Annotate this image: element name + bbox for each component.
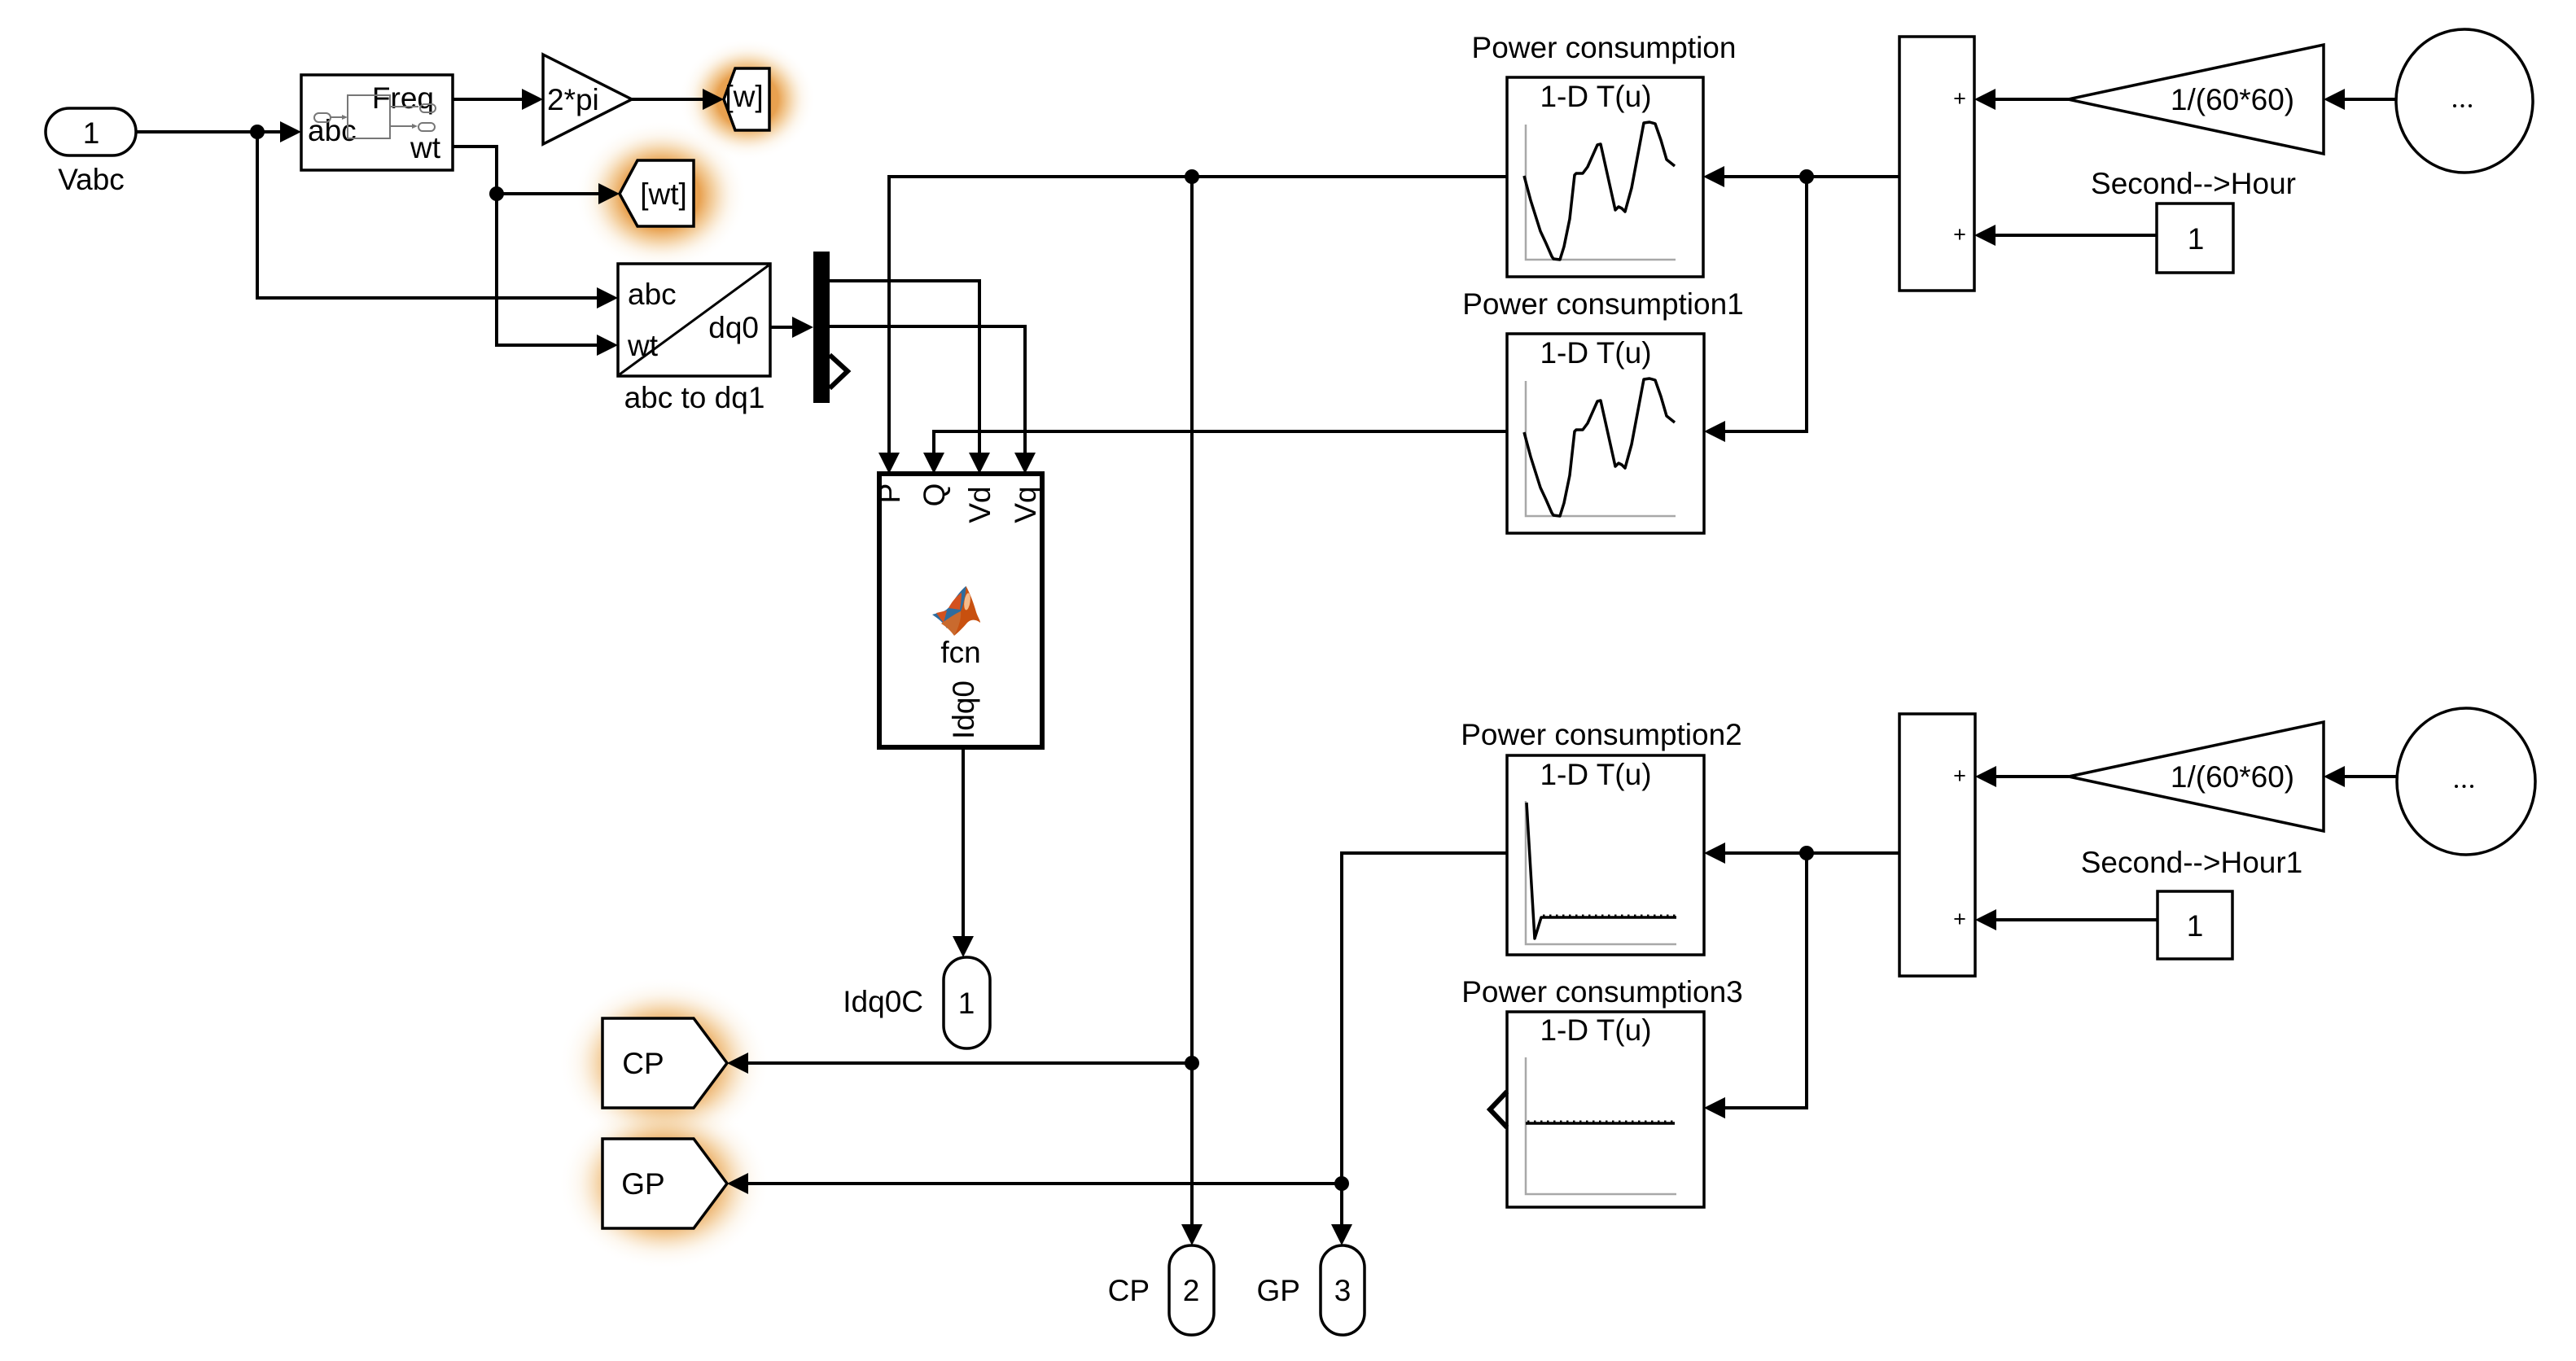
node junction wt — [489, 186, 504, 201]
outport 3 GP — [1257, 1245, 1365, 1335]
wire Vabc branch to abc-to-dq1 abc input — [257, 132, 618, 309]
wire clock1 to gain — [2324, 89, 2396, 110]
svg-text:abc: abc — [628, 278, 677, 311]
wire GP junction down to outport 3 — [1331, 1184, 1352, 1245]
wire gain2 to add2 — [1975, 766, 2069, 787]
svg-text:fcn: fcn — [940, 636, 980, 669]
goto tag [wt] — [620, 160, 694, 226]
goto tag [w] — [724, 68, 769, 130]
node junction CP tag — [1185, 1056, 1199, 1070]
constant 1 (Second-Hour) — [2157, 203, 2233, 273]
svg-text:[w]: [w] — [725, 80, 763, 113]
svg-text:1: 1 — [2188, 222, 2205, 256]
svg-text:Second-->Hour: Second-->Hour — [2091, 167, 2296, 200]
wire table1 output to fcn P — [878, 177, 1507, 474]
wire add1 output to table1 and table2 — [1723, 175, 1899, 178]
glow highlight of goto CP — [559, 977, 770, 1149]
svg-text:Power consumption3: Power consumption3 — [1461, 975, 1743, 1009]
svg-text:1-D T(u): 1-D T(u) — [1540, 1013, 1651, 1047]
wire table2 output to fcn Q — [923, 431, 1507, 474]
svg-text:1/(60*60): 1/(60*60) — [2171, 760, 2294, 794]
svg-text:1-D T(u): 1-D T(u) — [1540, 80, 1651, 113]
svg-text:1-D T(u): 1-D T(u) — [1540, 336, 1651, 370]
node junction add2 out — [1799, 846, 1814, 860]
lookup table Power consumption3 — [1461, 975, 1743, 1207]
svg-text:Power consumption1: Power consumption1 — [1462, 287, 1744, 321]
clock1 — [2396, 29, 2533, 173]
goto tag CP — [602, 1018, 727, 1108]
outport 2 CP — [1108, 1245, 1214, 1335]
inport 1 Vabc — [46, 108, 136, 196]
svg-text:Power consumption2: Power consumption2 — [1461, 718, 1742, 751]
svg-text:Vq: Vq — [1009, 486, 1042, 523]
sum add1 — [1899, 37, 1974, 291]
wire branch down to table2 input — [1704, 177, 1807, 442]
svg-text:+: + — [1953, 86, 1966, 111]
svg-text:Q: Q — [918, 484, 951, 507]
svg-text:Vabc: Vabc — [58, 163, 125, 196]
svg-text:abc to dq1: abc to dq1 — [624, 381, 765, 414]
svg-text:1: 1 — [958, 987, 975, 1020]
goto tag GP — [602, 1139, 727, 1228]
svg-text:Idq0: Idq0 — [947, 680, 980, 739]
svg-text:+: + — [1953, 764, 1966, 788]
MATLAB membrane logo — [932, 586, 980, 636]
wire CP long vertical — [1181, 177, 1203, 1245]
svg-text:Second-->Hour1: Second-->Hour1 — [2081, 846, 2303, 879]
wire GP junction to goto GP — [727, 1173, 1342, 1194]
svg-text:GP: GP — [1257, 1274, 1300, 1307]
wire branch down to table4 input — [1704, 853, 1807, 1118]
glow highlight of goto GP — [559, 1097, 770, 1270]
svg-text:wt: wt — [627, 329, 659, 362]
svg-text:2: 2 — [1183, 1274, 1200, 1307]
wire demux out2 to fcn Vq — [830, 326, 1036, 474]
svg-text:1: 1 — [83, 116, 100, 150]
svg-text:Vd: Vd — [963, 486, 997, 523]
wire PLL wt to goto [wt] — [453, 147, 620, 204]
node junction add1 out — [1799, 169, 1814, 184]
wire add2 output to table3 and table4 — [1724, 851, 1899, 855]
glow highlight of goto [wt] — [575, 120, 747, 270]
wire table3 output to GP net — [1342, 853, 1507, 1184]
lookup table Power consumption — [1472, 31, 1737, 277]
wire CP junction to goto CP — [727, 1052, 1192, 1074]
outport 1 Idq0C — [843, 957, 990, 1048]
wire gain 2*pi to goto [w] — [632, 89, 724, 110]
svg-text:+: + — [1953, 222, 1966, 247]
svg-text:CP: CP — [622, 1047, 664, 1080]
svg-text:1/(60*60): 1/(60*60) — [2171, 83, 2294, 116]
svg-text:2*pi: 2*pi — [547, 83, 599, 116]
svg-text:3: 3 — [1334, 1274, 1352, 1307]
gain 2*pi — [543, 55, 632, 144]
lookup table Power consumption1 — [1462, 287, 1744, 533]
MATLAB function block fcn — [873, 474, 1042, 747]
block abc to dq1 — [618, 264, 770, 414]
wire gain 1/(60*60) to add1 — [1974, 89, 2069, 110]
svg-text:GP: GP — [621, 1167, 664, 1201]
svg-text:CP: CP — [1108, 1274, 1150, 1307]
wire wt branch to abc-to-dq1 wt input — [497, 194, 618, 356]
subsystem PLL block (abc / Freq / wt) — [301, 75, 453, 170]
lookup table Power consumption2 — [1461, 718, 1742, 955]
gain 1/(60*60) Second-Hour1 — [2069, 722, 2324, 879]
node junction Vabc — [250, 125, 265, 139]
node junction GP — [1334, 1176, 1349, 1191]
svg-text:Idq0C: Idq0C — [843, 985, 923, 1018]
wire clock2 to gain2 — [2324, 766, 2397, 787]
svg-text:[wt]: [wt] — [640, 177, 687, 211]
svg-text:P: P — [873, 484, 906, 504]
demux — [813, 252, 848, 403]
wire fcn Idq0 to outport 1 — [953, 747, 974, 957]
wire constant2 to add2 — [1975, 909, 2158, 930]
svg-text:dq0: dq0 — [708, 311, 759, 344]
wire dq0 to demux — [770, 317, 813, 338]
svg-text:Freq: Freq — [372, 81, 434, 115]
svg-text:Power consumption: Power consumption — [1472, 31, 1737, 64]
wire PLL Freq to gain 2*pi — [453, 89, 543, 110]
svg-text:wt: wt — [410, 131, 441, 164]
wire demux out1 to fcn Vd — [830, 281, 990, 474]
svg-text:+: + — [1953, 907, 1966, 931]
constant 1 (Second-Hour1) — [2158, 891, 2232, 959]
sum add2 — [1899, 714, 1975, 976]
node junction CP branch — [1185, 169, 1199, 184]
wire constant1 to add1 — [1974, 225, 2157, 246]
svg-text:1-D T(u): 1-D T(u) — [1540, 758, 1651, 791]
wire Vabc to PLL abc input — [136, 121, 301, 142]
svg-text:1: 1 — [2187, 909, 2204, 943]
gain 1/(60*60) Second-Hour — [2068, 45, 2324, 200]
clock2 — [2397, 708, 2535, 855]
glow highlight of goto [w] — [679, 38, 816, 160]
